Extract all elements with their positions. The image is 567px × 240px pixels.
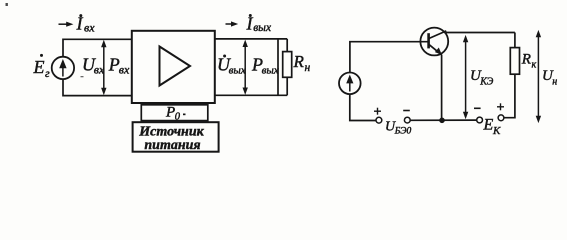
svg-text:н: н [305,62,311,74]
label U_н [542,68,557,87]
label − [474,107,481,109]
svg-text:КЭ: КЭ [479,76,494,87]
label I_вых [246,14,272,35]
resistor R_К [510,48,519,75]
terminal bar [277,39,279,95]
svg-text:E: E [483,117,494,134]
wire: output bottom [215,94,287,96]
label I_вх [76,14,96,35]
svg-text:R: R [521,52,531,68]
scan artifact small dash near U_вх [81,76,84,77]
svg-text:БЭ0: БЭ0 [394,126,412,136]
wire: collector top [446,32,515,34]
wire: output top [215,38,287,40]
label P_вых [251,54,279,76]
svg-text:К: К [492,125,501,137]
transistor Q [420,28,448,56]
svg-text:г: г [45,66,50,80]
current arrow I_вых [226,21,239,26]
junction [439,118,445,124]
svg-text:P: P [165,105,175,121]
amplifier box [132,31,215,103]
wire: left circuit bottom [63,79,132,96]
scan artifact top-left [6,3,8,6]
wire: left circuit top [63,39,132,57]
resistor R_н [283,52,292,78]
svg-text:E: E [33,57,45,77]
wire: R_н top stub [286,39,288,52]
svg-text:питания: питания [144,138,200,153]
svg-text:н: н [552,76,557,87]
wire: R_н bottom stub [286,77,288,95]
svg-text:к: к [532,60,537,71]
label R_К [521,52,537,71]
label + [374,108,381,115]
voltage arrow U_КЭ [463,35,468,119]
label + [497,103,504,110]
label R_н [293,52,311,74]
wire: emitter down [441,55,443,121]
svg-text:вх: вх [119,63,130,77]
terminal − (right pair) [477,117,483,123]
label U_вых [217,54,246,76]
svg-text:вых: вых [253,22,272,34]
label Источник питания [138,125,204,153]
current arrow I_вх [59,22,74,27]
wire: below right source [350,94,377,120]
label U_вх [82,54,105,76]
label E_г [33,54,51,80]
label − [403,110,410,112]
label E_К [483,117,502,138]
source (current) right [339,73,361,95]
terminal + (right pair) [498,115,504,121]
label P_вх [108,54,130,76]
label P_0 [165,105,186,123]
terminal + (left pair) [376,117,382,123]
label U_КЭ [470,68,494,87]
svg-text:R: R [293,52,305,71]
svg-text:вых: вых [229,64,246,76]
terminal − (left pair) [404,117,410,123]
wire: right circuit base (top-left) [350,42,429,73]
label U_БЭ0 [385,120,411,137]
amplifier triangle [160,47,191,86]
power box P_0 [141,105,208,121]
wire: bottom middle [410,119,477,121]
voltage arrow U_н [536,30,541,123]
wire: R_К top stub [514,33,516,48]
svg-text:вх: вх [94,63,105,77]
voltage arrow U_вх [101,40,106,95]
wire: bottom right corner [504,74,515,118]
svg-text:I: I [76,14,84,34]
svg-text:вых: вых [262,64,279,76]
svg-text:0: 0 [175,111,181,122]
source E_g [52,57,74,79]
voltage arrow U_вых [243,40,248,95]
svg-text:вх: вх [84,21,95,35]
power supply box [133,122,219,152]
